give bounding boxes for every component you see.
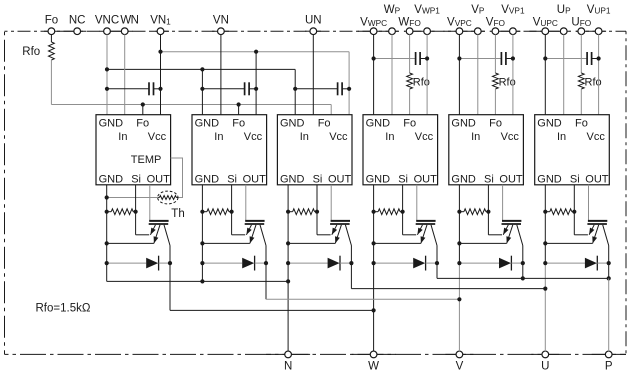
wire UP input vertical to U6 In xyxy=(563,34,565,114)
wire VUP1 vertical to U6 Vcc xyxy=(598,34,600,114)
wire GND/emitter rail leg6 to terminal U xyxy=(544,185,546,351)
pin VUP1 with label xyxy=(587,4,611,35)
wire UN input to U3 In xyxy=(312,34,314,114)
terminal pin V with label xyxy=(456,351,464,372)
junction D3 cathode / collector xyxy=(349,261,353,265)
junction Vcc rail / U2 Vcc xyxy=(254,50,258,54)
svg-text:GND: GND xyxy=(99,173,124,185)
capacitor C4 xyxy=(416,52,421,65)
wire top border solid segment pins VNC-WN xyxy=(99,30,133,32)
pin VFO with label xyxy=(486,16,506,34)
pin VWPC with label xyxy=(360,16,387,34)
wire cap row C6 right xyxy=(592,58,599,60)
module case outline left edge (dash-dot) xyxy=(4,31,6,354)
junction Rs1 / Si line xyxy=(134,210,138,214)
wire top border solid segment high-side pin pair 1 xyxy=(529,30,570,32)
junction C6 / Vcc line xyxy=(597,56,601,60)
capacitor C2 xyxy=(245,82,250,95)
pin UP with label xyxy=(557,4,571,35)
wire GND/emitter rail leg1 xyxy=(106,185,108,282)
wire collector leg6 to P rail xyxy=(608,246,610,279)
module case outline top edge (dash-dot) xyxy=(5,30,627,32)
diode D2 freewheel xyxy=(202,256,266,271)
wire P rail (high-side collectors) xyxy=(437,277,609,279)
wire cap row C5 left xyxy=(459,58,501,60)
terminal pin N with label xyxy=(284,351,292,372)
junction emitter / GND rail leg3 xyxy=(286,241,290,245)
junction C1 / GND line xyxy=(105,87,109,91)
svg-text:Si: Si xyxy=(570,173,580,185)
op-amp U1 gate-driver IC block xyxy=(96,115,171,186)
junction C2 / GND line xyxy=(200,87,204,91)
wire OUT gate line leg6 xyxy=(588,185,590,221)
resistor Rs5 current-sense xyxy=(459,209,488,215)
svg-text:VP: VP xyxy=(471,4,485,16)
transistor Q5 V-phase high-side IGBT xyxy=(502,221,523,246)
svg-text:OUT: OUT xyxy=(499,173,523,185)
svg-text:Fo: Fo xyxy=(232,117,245,129)
junction Fo rail / U1 Fo xyxy=(141,102,145,106)
wire bottom border solid segment pin W xyxy=(352,353,396,355)
svg-text:VN1: VN1 xyxy=(150,15,171,27)
svg-text:OUT: OUT xyxy=(243,173,267,185)
svg-text:U: U xyxy=(541,361,549,373)
wire Vcc rail drop into U3 xyxy=(348,52,350,115)
wire GND/emitter rail leg5 to terminal V xyxy=(458,185,460,351)
op-amp U3 gate-driver IC block xyxy=(277,115,352,186)
wire Si sense line leg5 xyxy=(488,185,502,235)
wire cap row C3 right xyxy=(342,88,349,90)
junction C4 / GND line xyxy=(372,56,376,60)
label Rfo of R3 xyxy=(585,76,602,88)
svg-text:In: In xyxy=(471,131,480,143)
resistor Rs6 current-sense xyxy=(545,209,574,215)
wire U2 GND lead xyxy=(201,69,203,114)
resistor Rs2 current-sense xyxy=(202,209,231,215)
junction Rs2 / GND rail xyxy=(200,210,204,214)
wire OUT gate line leg5 xyxy=(502,185,504,221)
wire VFO vertical lower to U5 Fo xyxy=(494,89,496,115)
svg-text:Si: Si xyxy=(398,173,408,185)
junction VN1 / Vcc rail xyxy=(158,50,162,54)
junction emitter / GND rail leg6 xyxy=(543,241,547,245)
pin NC with label xyxy=(69,15,86,35)
svg-text:GND: GND xyxy=(195,117,220,129)
junction P rail / leg5 collector xyxy=(521,276,525,280)
op-amp U5 gate-driver IC block xyxy=(449,115,524,186)
wire top border solid segment pins Fo-NC xyxy=(44,30,86,32)
junction Rs5 / Si line xyxy=(486,210,490,214)
junction C6 / GND line xyxy=(543,56,547,60)
svg-text:OUT: OUT xyxy=(585,173,609,185)
junction N rail / N terminal line xyxy=(286,279,290,283)
label Th xyxy=(171,208,184,220)
svg-text:Vcc: Vcc xyxy=(148,131,167,143)
wire top border solid segment high-side pin pair 1 xyxy=(443,30,484,32)
wire top border solid segment high-side pin pair 2 xyxy=(399,30,434,32)
junction D3 anode / GND rail xyxy=(286,261,290,265)
svg-text:Si: Si xyxy=(313,173,323,185)
pin Fo with label xyxy=(45,15,58,35)
resistor R1 Rfo xyxy=(407,73,413,89)
svg-text:Rfo=1.5kΩ: Rfo=1.5kΩ xyxy=(36,302,91,314)
wire cap row C5 right xyxy=(506,58,513,60)
svg-text:In: In xyxy=(118,131,127,143)
wire Si sense line leg2 xyxy=(232,185,246,235)
svg-text:Rfo: Rfo xyxy=(22,46,40,58)
wire cap row C2 left xyxy=(202,88,244,90)
svg-text:In: In xyxy=(557,131,566,143)
svg-text:UFO: UFO xyxy=(571,16,591,28)
pin WN with label xyxy=(120,15,138,35)
wire VVP1 vertical to U5 Vcc xyxy=(512,34,514,114)
module case outline bottom edge (dash-dot) xyxy=(5,353,627,355)
junction D5 anode / GND rail xyxy=(457,261,461,265)
junction Rs6 / Si line xyxy=(572,210,576,214)
svg-text:GND: GND xyxy=(366,117,391,129)
pin VWP1 with label xyxy=(414,4,440,35)
wire bottom border solid segment pin V xyxy=(445,353,473,355)
thermistor Th xyxy=(158,191,178,204)
resistor R2 Rfo xyxy=(493,73,499,89)
svg-text:GND: GND xyxy=(366,173,391,185)
svg-text:GND: GND xyxy=(280,173,305,185)
junction D1 anode / GND rail xyxy=(105,261,109,265)
wire top border solid segment high-side pin pair 1 xyxy=(358,30,399,32)
svg-text:Vcc: Vcc xyxy=(329,131,348,143)
wire node U route from Q3 collector xyxy=(351,288,545,290)
wire thermistor to GND rail xyxy=(107,197,159,199)
wire Fo rail drop into U3 xyxy=(330,105,332,115)
svg-text:Si: Si xyxy=(484,173,494,185)
wire collector leg5 to P rail xyxy=(522,246,524,279)
junction emitter / GND rail leg4 xyxy=(372,241,376,245)
junction Rs4 / GND rail xyxy=(372,210,376,214)
svg-text:OUT: OUT xyxy=(147,173,171,185)
junction C1 / Vcc line xyxy=(158,87,162,91)
junction node V route / leg5 rail xyxy=(457,297,461,301)
junction node W route / leg4 rail xyxy=(372,308,376,312)
transistor Q4 W-phase high-side IGBT xyxy=(416,221,437,246)
svg-text:Fo: Fo xyxy=(45,15,58,27)
wire emitter leg6 xyxy=(545,242,592,244)
junction N rail / leg2 GND xyxy=(200,279,204,283)
wire bottom border solid segment pin P xyxy=(592,353,626,355)
svg-text:VVP1: VVP1 xyxy=(501,4,525,16)
pin VN with label xyxy=(213,15,229,35)
capacitor C1 xyxy=(149,82,154,95)
terminal pin U with label xyxy=(541,351,549,372)
terminal pin W with label xyxy=(368,351,379,372)
wire VN input to U2 In xyxy=(220,34,222,114)
junction Fo rail / U2 Fo xyxy=(237,102,241,106)
capacitor C6 xyxy=(587,52,592,65)
svg-text:Vcc: Vcc xyxy=(587,131,606,143)
junction VNC / GND rail xyxy=(105,67,109,71)
junction node U route / leg6 rail xyxy=(543,287,547,291)
junction Rs1 / GND rail xyxy=(105,210,109,214)
wire emitter leg2 xyxy=(202,242,250,244)
resistor Rs3 current-sense xyxy=(288,209,317,215)
wire bottom border solid segment pin N xyxy=(266,353,310,355)
svg-text:WFO: WFO xyxy=(398,16,421,28)
svg-text:VFO: VFO xyxy=(486,16,506,28)
svg-text:UN: UN xyxy=(305,15,322,27)
svg-text:NC: NC xyxy=(69,15,86,27)
junction Rs4 / Si line xyxy=(401,210,405,214)
wire cap row C4 left xyxy=(374,58,416,60)
pin VP with label xyxy=(471,4,485,35)
diode D3 freewheel xyxy=(288,256,351,271)
junction D1 cathode / collector xyxy=(168,261,172,265)
svg-text:OUT: OUT xyxy=(328,173,352,185)
transistor Q3 U-phase low-side IGBT xyxy=(330,221,351,246)
wire emitter leg5 xyxy=(459,242,506,244)
svg-text:Fo: Fo xyxy=(318,117,331,129)
wire collector leg1 xyxy=(169,246,171,311)
wire node V route from Q2 collector xyxy=(266,298,459,300)
wire top border solid segment pin VN1 xyxy=(152,30,169,32)
transistor Q2 V-phase low-side IGBT xyxy=(245,221,266,246)
svg-text:In: In xyxy=(214,131,223,143)
terminal pin P with label xyxy=(605,351,613,372)
diode D1 freewheel xyxy=(107,256,170,271)
wire OUT gate line leg3 xyxy=(330,185,332,221)
svg-text:Fo: Fo xyxy=(136,117,149,129)
resistor Rs4 current-sense xyxy=(374,209,403,215)
svg-text:Fo: Fo xyxy=(575,117,588,129)
svg-text:VVPC: VVPC xyxy=(447,16,472,28)
junction C4 / Vcc line xyxy=(425,56,429,60)
svg-text:GND: GND xyxy=(195,173,220,185)
wire VFO vertical upper xyxy=(494,34,496,73)
value label Rfo=1.5kΩ xyxy=(36,302,91,314)
svg-text:VUP1: VUP1 xyxy=(587,4,611,16)
wire U2 Vcc lead xyxy=(255,52,257,115)
wire GND/emitter rail leg2 xyxy=(201,185,203,282)
wire cap row C1 left xyxy=(107,88,149,90)
junction D4 anode / GND rail xyxy=(372,261,376,265)
svg-text:W: W xyxy=(368,361,379,373)
wire cap row C2 right xyxy=(249,88,256,90)
svg-text:GND: GND xyxy=(451,173,476,185)
svg-text:VNC: VNC xyxy=(95,15,119,27)
svg-text:Vcc: Vcc xyxy=(415,131,434,143)
svg-text:TEMP: TEMP xyxy=(131,154,162,166)
wire WP input vertical to U4 In xyxy=(391,34,393,114)
wire node W route from Q1 collector xyxy=(170,309,374,311)
wire UFO vertical lower to U6 Fo xyxy=(580,89,582,115)
svg-text:Th: Th xyxy=(171,208,184,220)
wire Si sense line leg6 xyxy=(574,185,588,235)
wire top border solid segment high-side pin pair 2 xyxy=(571,30,606,32)
junction Rs6 / GND rail xyxy=(543,210,547,214)
diode D6 freewheel xyxy=(545,256,608,271)
wire WN input to U1 In xyxy=(124,34,126,114)
wire UFO vertical upper xyxy=(580,34,582,73)
pin VUPC with label xyxy=(533,16,558,34)
wire OUT gate line leg2 xyxy=(245,185,247,221)
wire emitter leg1 xyxy=(107,242,154,244)
svg-text:Vcc: Vcc xyxy=(244,131,263,143)
svg-text:GND: GND xyxy=(537,173,562,185)
svg-text:Fo: Fo xyxy=(489,117,502,129)
wire Fo stub into U1 xyxy=(142,105,144,115)
transistor Q6 U-phase high-side IGBT xyxy=(587,221,608,246)
svg-text:OUT: OUT xyxy=(414,173,438,185)
svg-text:GND: GND xyxy=(537,117,562,129)
junction emitter / GND rail leg2 xyxy=(200,241,204,245)
wire N-side GND rail xyxy=(107,68,295,70)
svg-text:Vcc: Vcc xyxy=(501,131,520,143)
label Rfo of R2 xyxy=(499,76,516,88)
svg-text:Si: Si xyxy=(131,173,141,185)
wire cap row C3 left xyxy=(295,88,337,90)
junction Rs3 / Si line xyxy=(315,210,319,214)
wire U1 TEMP lead xyxy=(171,158,183,198)
resistor Rfo (fault output pull-down) xyxy=(49,34,55,60)
svg-text:UP: UP xyxy=(557,4,571,16)
wire collector leg2 xyxy=(265,246,267,300)
wire emitter leg4 xyxy=(374,242,421,244)
wire VP input vertical to U5 In xyxy=(477,34,479,114)
junction D2 cathode / collector xyxy=(264,261,268,265)
pin VVPC with label xyxy=(447,16,472,34)
svg-text:VN: VN xyxy=(213,15,229,27)
svg-text:GND: GND xyxy=(451,117,476,129)
junction D4 cathode / collector xyxy=(435,261,439,265)
junction Rs2 / Si line xyxy=(230,210,234,214)
wire GND/emitter rail leg4 to terminal W xyxy=(373,185,375,351)
junction GND rail / U2 GND xyxy=(200,67,204,71)
wire top border solid segment pin UN xyxy=(305,30,321,32)
resistor Rs1 current-sense xyxy=(107,209,136,215)
pin VN1 with label xyxy=(150,15,171,35)
junction D6 anode / GND rail xyxy=(543,261,547,265)
pin UFO with label xyxy=(571,16,591,34)
svg-text:VWPC: VWPC xyxy=(360,16,387,28)
svg-text:WP: WP xyxy=(384,4,401,16)
svg-text:GND: GND xyxy=(99,117,124,129)
wire cap row C1 right xyxy=(154,88,161,90)
junction D5 cathode / collector xyxy=(521,261,525,265)
junction C5 / Vcc line xyxy=(511,56,515,60)
junction C5 / GND line xyxy=(457,56,461,60)
wire GND rail drop into U3 xyxy=(294,69,296,114)
pin WP with label xyxy=(384,4,401,35)
wire GND/emitter rail leg3 to terminal N xyxy=(287,185,289,351)
junction C2 / Vcc line xyxy=(254,87,258,91)
wire VNC vertical to U1 GND xyxy=(106,34,108,114)
wire collector leg3 xyxy=(350,246,352,289)
label Rfo xyxy=(22,46,40,58)
junction D6 cathode / collector xyxy=(607,261,611,265)
wire bottom border solid segment pin U xyxy=(531,353,559,355)
wire Si sense line leg4 xyxy=(403,185,417,235)
diode D4 freewheel xyxy=(374,256,437,271)
svg-text:In: In xyxy=(300,131,309,143)
junction D2 anode / GND rail xyxy=(200,261,204,265)
wire Fo rail horizontal xyxy=(51,104,331,106)
junction P rail / leg6 collector xyxy=(607,276,611,280)
wire VWPC vertical to U4 GND xyxy=(373,34,375,114)
junction emitter / GND rail leg1 xyxy=(105,241,109,245)
svg-text:N: N xyxy=(284,361,292,373)
transistor Q1 W-phase low-side IGBT xyxy=(149,221,170,246)
svg-text:Si: Si xyxy=(227,173,237,185)
resistor R3 Rfo xyxy=(578,73,584,89)
wire VWP1 vertical to U4 Vcc xyxy=(426,34,428,114)
wire OUT gate line leg4 xyxy=(416,185,418,221)
svg-text:VUPC: VUPC xyxy=(533,16,558,28)
capacitor C5 xyxy=(501,52,506,65)
pin UN with label xyxy=(305,15,322,35)
wire Fo stub into U2 xyxy=(238,105,240,115)
wire top border solid segment high-side pin pair 2 xyxy=(485,30,520,32)
wire N rail (low-side emitters) xyxy=(107,280,288,282)
pin VNC with label xyxy=(95,15,119,35)
module case outline right edge (dash-dot) xyxy=(625,31,627,354)
op-amp U6 gate-driver IC block xyxy=(535,115,610,186)
junction emitter / GND rail leg5 xyxy=(457,241,461,245)
wire VVPC vertical to U5 GND xyxy=(458,34,460,114)
svg-text:V: V xyxy=(456,361,464,373)
svg-text:P: P xyxy=(605,361,613,373)
wire top border solid segment pin VN xyxy=(212,30,229,32)
op-amp U2 gate-driver IC block xyxy=(192,115,267,186)
pin VVP1 with label xyxy=(501,4,525,35)
wire VN1 vertical to U1 Vcc xyxy=(160,34,162,114)
svg-text:VWP1: VWP1 xyxy=(414,4,440,16)
wire WFO vertical upper xyxy=(409,34,411,73)
label Rfo of R1 xyxy=(413,76,430,88)
wire OUT gate line leg1 xyxy=(149,185,151,221)
wire Fo net vertical below Rfo xyxy=(50,60,52,105)
junction thermistor line / GND rail xyxy=(105,195,109,199)
svg-text:GND: GND xyxy=(280,117,305,129)
wire Si sense line leg3 xyxy=(317,185,331,235)
op-amp U4 gate-driver IC block xyxy=(363,115,438,186)
capacitor C3 xyxy=(338,82,343,95)
wire collector leg4 to P rail xyxy=(436,246,438,279)
svg-text:Fo: Fo xyxy=(403,117,416,129)
wire cap row C6 left xyxy=(545,58,587,60)
junction C3 / Vcc line xyxy=(347,87,351,91)
junction Rs3 / GND rail xyxy=(286,210,290,214)
junction Rs5 / GND rail xyxy=(457,210,461,214)
diode D5 freewheel xyxy=(459,256,522,271)
wire N-side Vcc rail xyxy=(161,51,350,53)
wire Si sense line leg1 xyxy=(136,185,150,235)
wire emitter leg3 xyxy=(288,242,335,244)
wire cap row C4 right xyxy=(420,58,427,60)
junction C3 / GND line xyxy=(293,87,297,91)
pin WFO with label xyxy=(398,16,421,34)
svg-text:WN: WN xyxy=(120,15,138,27)
svg-text:In: In xyxy=(385,131,394,143)
wire VUPC vertical to U6 GND xyxy=(544,34,546,114)
wire P rail drop to terminal P xyxy=(608,278,610,351)
wire WFO vertical lower to U4 Fo xyxy=(409,89,411,115)
